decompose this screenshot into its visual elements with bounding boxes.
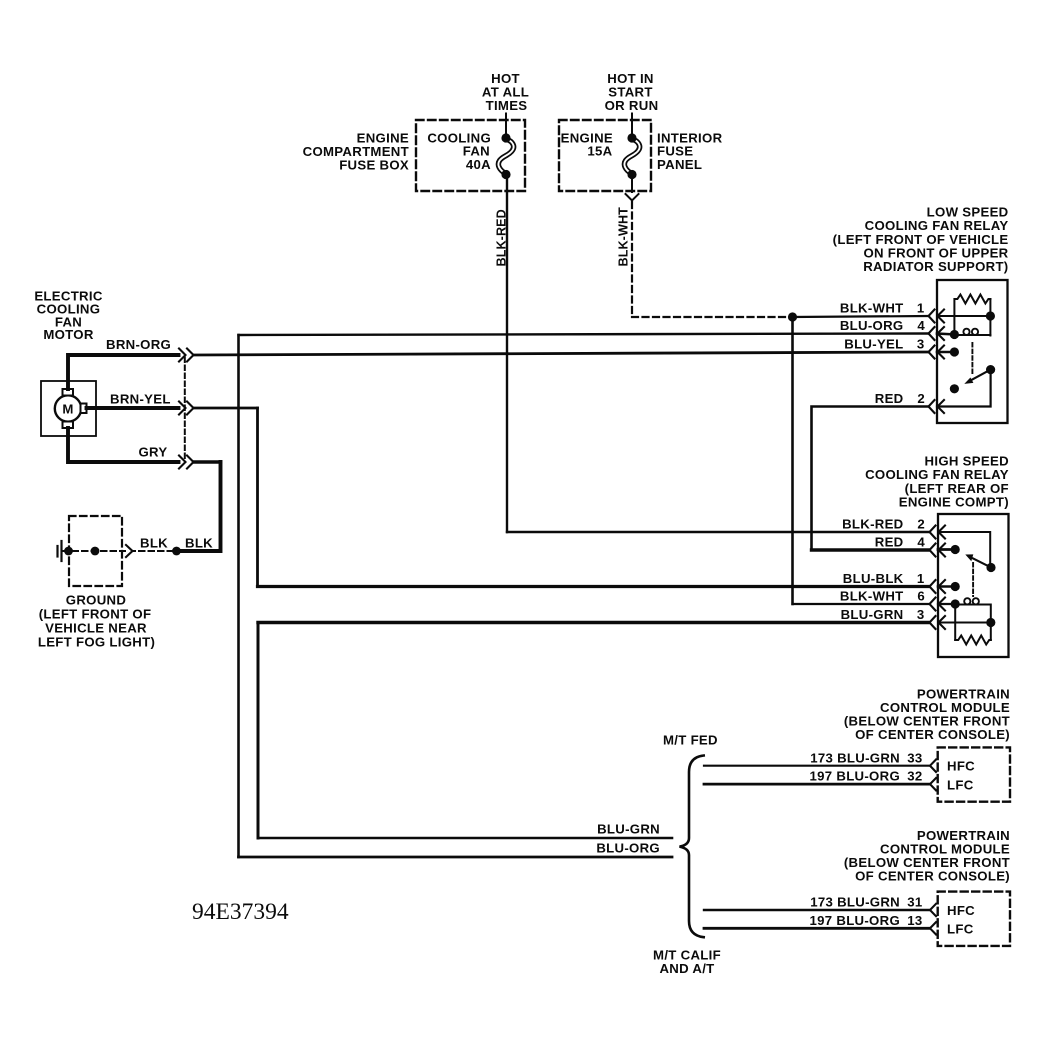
relay K2 pin5 dot xyxy=(951,599,960,608)
svg-text:HFC: HFC xyxy=(947,903,975,918)
fuse box B2 INTERIOR FUSE PANEL (dashed) xyxy=(559,120,651,191)
svg-text:40A: 40A xyxy=(466,157,491,172)
wire label 173 BLU-GRN 31 xyxy=(810,895,922,910)
label PCM-1 HFC / LFC xyxy=(947,759,975,793)
svg-text:FUSE BOX: FUSE BOX xyxy=(339,157,409,172)
pin label BLK-WHT 6 xyxy=(840,589,925,604)
wire GRY continuation xyxy=(194,460,221,463)
svg-text:2: 2 xyxy=(917,391,925,406)
relay K2 pin1 stub dot xyxy=(938,585,953,588)
wire BLU-GRN bottom row to brace xyxy=(258,837,672,840)
svg-text:VEHICLE NEAR: VEHICLE NEAR xyxy=(45,620,147,635)
wire label 197 BLU-ORG 32 xyxy=(810,769,923,784)
ground wire dashed with junction dots xyxy=(63,547,181,556)
svg-text:BLU-YEL: BLU-YEL xyxy=(844,337,903,352)
wire motor right lead BRN-YEL xyxy=(87,406,179,410)
relay K1 right vertical wire xyxy=(989,299,991,336)
svg-text:1: 1 xyxy=(917,571,925,586)
relay K2 left vertical wire xyxy=(954,604,956,640)
wire BRN-YEL continuation to bus V6 xyxy=(194,407,258,410)
relay K1 switch xyxy=(937,365,995,407)
svg-text:AND A/T: AND A/T xyxy=(659,961,714,976)
svg-text:RED: RED xyxy=(875,391,904,406)
connector chevron PCM-2 HFC xyxy=(930,904,936,916)
svg-text:1: 1 xyxy=(917,301,925,316)
svg-text:15A: 15A xyxy=(587,144,612,159)
svg-text:BLK: BLK xyxy=(185,536,213,551)
svg-text:HFC: HFC xyxy=(947,759,975,774)
svg-text:LFC: LFC xyxy=(947,777,974,792)
relay K1 pin 1 connector chevrons xyxy=(929,310,945,323)
ground G1 dashed box xyxy=(69,516,122,586)
svg-text:31: 31 xyxy=(907,895,922,910)
label GROUND (LEFT FRONT OF VEHICLE NEAR LEFT FOG LIGHT) xyxy=(38,592,155,649)
wire 173 BLU-GRN 31 to PCM-2 HFC xyxy=(704,909,930,911)
svg-text:M/T FED: M/T FED xyxy=(663,733,718,748)
svg-text:BLU-ORG: BLU-ORG xyxy=(840,318,904,333)
svg-text:BLU-BLK: BLU-BLK xyxy=(843,571,904,586)
pin label BLU-ORG 4 xyxy=(840,318,926,333)
wire BLU-ORG bottom row to brace xyxy=(239,856,673,859)
svg-text:173 BLU-GRN: 173 BLU-GRN xyxy=(810,750,900,765)
fuse F1 COOLING FAN 40A xyxy=(498,114,513,180)
relay K2 pin 5 connector chevrons xyxy=(930,598,946,611)
wire BLK-WHT dashed from fuse panel to node A xyxy=(632,202,790,317)
label ELECTRIC COOLING FAN MOTOR xyxy=(34,289,103,343)
relay K1 pin4 stub and dot xyxy=(937,332,952,335)
svg-text:BLK-RED: BLK-RED xyxy=(495,209,509,266)
relay K2 pin5 stub xyxy=(938,603,953,605)
svg-text:BLK-WHT: BLK-WHT xyxy=(840,589,904,604)
relay K2 pin 3 connector chevrons xyxy=(930,616,946,629)
svg-text:BRN-YEL: BRN-YEL xyxy=(110,392,171,407)
svg-text:BLK: BLK xyxy=(140,536,168,551)
relay K2 pin4 stub xyxy=(938,548,953,551)
relay K1 pin3 stub dot xyxy=(937,351,952,354)
label POWERTRAIN CONTROL MODULE (top) xyxy=(844,686,1010,741)
wire label 173 BLU-GRN 33 xyxy=(810,750,922,765)
svg-text:33: 33 xyxy=(907,750,922,765)
svg-text:GRY: GRY xyxy=(139,445,168,460)
svg-text:BLK-WHT: BLK-WHT xyxy=(617,207,631,267)
svg-text:M: M xyxy=(62,402,73,417)
svg-text:3: 3 xyxy=(917,337,925,352)
fuse box B1 ENGINE COMPARTMENT FUSE BOX (dashed) xyxy=(416,120,525,191)
connector chevrons BRN-ORG xyxy=(179,349,194,362)
svg-text:197 BLU-ORG: 197 BLU-ORG xyxy=(810,769,901,784)
label HOT IN START OR RUN xyxy=(605,71,659,113)
relay K2 right vertical wire xyxy=(990,605,992,641)
label PCM-2 HFC / LFC xyxy=(947,903,975,937)
bus V7 BLU-GRN vertical x=258 xyxy=(257,623,260,839)
connector chevron PCM-1 HFC xyxy=(930,760,936,773)
relay K1 pin 4 connector chevrons xyxy=(929,327,945,340)
svg-text:OF CENTER CONSOLE): OF CENTER CONSOLE) xyxy=(855,869,1010,884)
relay K2 pin3 internal wire and junction xyxy=(938,622,991,624)
svg-text:ENGINE COMPT): ENGINE COMPT) xyxy=(899,494,1009,509)
svg-text:LFC: LFC xyxy=(947,922,974,937)
svg-text:BLU-GRN: BLU-GRN xyxy=(841,607,904,622)
relay K1 dashed actuator line xyxy=(971,343,973,374)
pin label RED 4 xyxy=(875,535,926,550)
wire BLU-GRN row to high speed relay pin 3 xyxy=(258,621,928,624)
relay K1 pin 3 connector chevrons xyxy=(929,346,945,359)
svg-text:6: 6 xyxy=(917,589,925,604)
svg-text:3: 3 xyxy=(917,607,925,622)
wire BLU-ORG row to low speed relay pin 4 xyxy=(239,334,929,336)
svg-text:BRN-ORG: BRN-ORG xyxy=(106,337,171,352)
relay K1 resistor xyxy=(954,295,990,335)
connector chevron below fuse F2 (down arrow) xyxy=(626,194,639,201)
wire BLK-WHT row to high speed relay pin 5 xyxy=(793,603,929,605)
svg-text:RADIATOR SUPPORT): RADIATOR SUPPORT) xyxy=(863,259,1008,274)
relay K2 coil xyxy=(955,598,990,604)
label M/T CALIF AND A/T xyxy=(653,948,721,977)
label ENGINE COMPARTMENT FUSE BOX xyxy=(303,131,409,173)
svg-text:2: 2 xyxy=(917,517,925,532)
svg-text:BLK-RED: BLK-RED xyxy=(842,517,903,532)
bus V6 BRN-YEL/BLU-BLK vertical x=257.5 xyxy=(256,408,259,587)
bus V3 BLK-WHT vertical x=792.5 down to high speed relay pin 5 xyxy=(791,317,794,604)
pin label BLU-BLK 1 xyxy=(843,571,925,586)
svg-text:BLK-WHT: BLK-WHT xyxy=(840,301,904,316)
electric cooling fan motor M1 xyxy=(41,381,96,436)
svg-text:(LEFT FRONT OF: (LEFT FRONT OF xyxy=(39,606,152,621)
connector chevron PCM-2 LFC xyxy=(930,922,936,934)
wire BRN-ORG/BLU-YEL row to low speed relay pin 3 xyxy=(194,352,929,355)
svg-text:GROUND: GROUND xyxy=(66,592,126,607)
pin label BLK-WHT 1 xyxy=(840,301,925,316)
node A junction dot BLK-WHT xyxy=(788,312,797,321)
svg-text:BLU-GRN: BLU-GRN xyxy=(597,822,660,837)
wire BLU-BLK row to high speed relay pin 1 xyxy=(258,585,929,588)
bus V5 BLU-ORG vertical x=238.5 xyxy=(237,335,240,857)
svg-text:RED: RED xyxy=(875,535,904,550)
svg-text:MOTOR: MOTOR xyxy=(43,327,94,342)
relay K2 pin 2 connector chevrons xyxy=(930,526,946,539)
wire label 197 BLU-ORG 13 xyxy=(810,913,923,928)
pin label BLK-RED 2 xyxy=(842,517,925,532)
label ENGINE 15A xyxy=(561,130,613,158)
PCM-2 dashed box xyxy=(938,892,1010,946)
low speed relay K1 box xyxy=(937,280,1008,423)
wire GRY/BLK vertical x=220.5 xyxy=(177,462,221,551)
label LOW SPEED COOLING FAN RELAY xyxy=(833,205,1009,274)
pin label BLU-YEL 3 xyxy=(844,337,924,352)
label HOT AT ALL TIMES xyxy=(482,71,529,113)
svg-text:BLU-ORG: BLU-ORG xyxy=(596,841,660,856)
svg-text:13: 13 xyxy=(907,913,922,928)
label HIGH SPEED COOLING FAN RELAY xyxy=(865,454,1009,510)
wire RED low speed pin 2 to high speed pin 4 xyxy=(812,407,929,551)
svg-text:OR RUN: OR RUN xyxy=(605,98,659,113)
relay K2 pin2 internal wire xyxy=(938,532,990,565)
relay K2 pin 1 connector chevrons xyxy=(930,580,946,593)
svg-text:94E37394: 94E37394 xyxy=(192,899,289,925)
svg-text:4: 4 xyxy=(917,318,925,333)
connector chevrons BRN-YEL xyxy=(179,402,194,415)
svg-text:173 BLU-GRN: 173 BLU-GRN xyxy=(810,895,900,910)
wire 197 BLU-ORG 13 to PCM-2 LFC xyxy=(704,927,930,930)
high speed relay K2 box xyxy=(938,514,1009,657)
wire 173 BLU-GRN 33 to PCM-1 HFC xyxy=(704,765,930,767)
svg-text:32: 32 xyxy=(907,769,922,784)
relay K2 resistor xyxy=(955,636,991,645)
pin label RED 2 xyxy=(875,391,925,406)
svg-text:TIMES: TIMES xyxy=(486,98,528,113)
svg-text:4: 4 xyxy=(917,535,925,550)
label COOLING FAN 40A xyxy=(427,130,491,172)
svg-text:PANEL: PANEL xyxy=(657,157,702,172)
wire BLK-WHT solid node A to low speed relay pin 1 xyxy=(793,316,929,317)
connector C100 dashed line xyxy=(184,358,186,462)
relay K1 coil xyxy=(954,329,990,335)
svg-text:LEFT FOG LIGHT): LEFT FOG LIGHT) xyxy=(38,634,155,649)
connector chevron BLK (right arrow) xyxy=(126,545,133,557)
svg-text:OF CENTER CONSOLE): OF CENTER CONSOLE) xyxy=(855,727,1010,742)
relay K2 dashed actuator line xyxy=(972,563,974,596)
brace splitting BLU-GRN/BLU-ORG to PCM wires xyxy=(680,756,704,938)
fuse F2 ENGINE 15A xyxy=(624,114,639,193)
relay K2 pin 4 connector chevrons xyxy=(930,544,946,557)
wire 197 BLU-ORG 32 to PCM-1 LFC xyxy=(704,783,930,786)
relay K1 pin 2 connector chevrons xyxy=(929,400,945,413)
wire motor bottom lead to GRY xyxy=(68,428,179,462)
wire BLK-RED vertical from fuse F1 down xyxy=(506,175,508,533)
PCM-1 dashed box xyxy=(938,747,1010,801)
connector chevrons GRY xyxy=(179,456,194,469)
wire motor top lead to BRN-ORG xyxy=(68,355,179,389)
svg-text:197 BLU-ORG: 197 BLU-ORG xyxy=(810,913,901,928)
relay K2 switch xyxy=(951,545,996,572)
ground symbol xyxy=(58,541,62,561)
wire BLK-RED corner to high speed relay pin 2 xyxy=(507,531,928,533)
label INTERIOR FUSE PANEL xyxy=(657,130,723,172)
pin label BLU-GRN 3 xyxy=(841,607,925,622)
label POWERTRAIN CONTROL MODULE (bottom) xyxy=(844,828,1010,883)
connector chevron PCM-1 LFC xyxy=(930,778,936,790)
relay K1 pin1 internal wire and junction xyxy=(937,315,990,317)
